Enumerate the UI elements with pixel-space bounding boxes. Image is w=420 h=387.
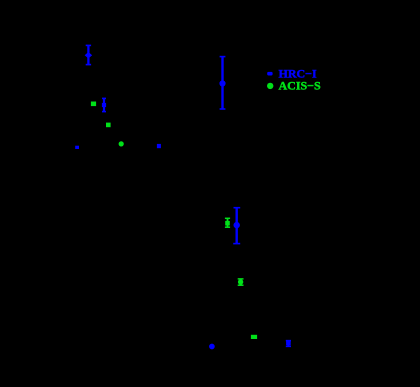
data point M: green rect — [251, 335, 257, 339]
data point E: green circle — [119, 141, 124, 146]
legend marker ACIS-S: green — [267, 83, 273, 89]
svg-text:ACIS−S: ACIS−S — [279, 79, 322, 93]
data point G: blue square — [157, 144, 161, 148]
data point C: blue errorbar square — [102, 98, 106, 111]
data point J: green errorbar square — [225, 218, 230, 227]
data point B: green square — [91, 102, 96, 107]
data point N: blue errorbar square — [286, 341, 291, 347]
data point H: blue errorbar circle — [219, 57, 225, 109]
legend marker HRC-I: blue — [267, 72, 272, 76]
data point I: blue errorbar circle — [233, 208, 240, 244]
data point D: green square — [106, 123, 111, 128]
data point F: blue square — [75, 146, 79, 149]
data point A: blue errorbar circle — [85, 45, 91, 64]
data point L: blue circle — [209, 344, 215, 350]
data point K: green errorbar circle — [238, 279, 244, 285]
